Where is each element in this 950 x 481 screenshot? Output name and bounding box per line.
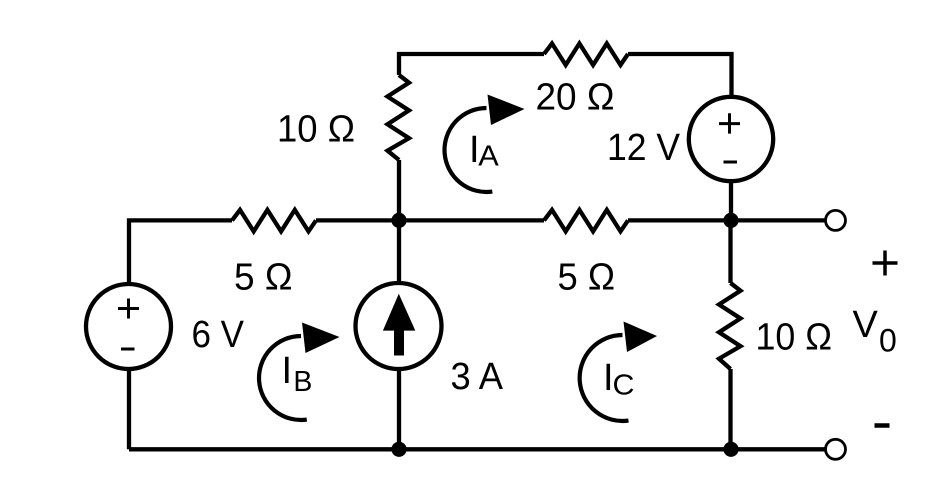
svg-text:5 Ω: 5 Ω [234,257,293,299]
wire 3A source bottom lead [397,369,401,449]
wire middle rail center segment [316,218,544,222]
12V minus sign [724,161,738,164]
svg-text:C: C [613,370,635,402]
wire 12V source bottom lead [729,181,733,220]
svg-text:0: 0 [879,323,897,359]
wire top rail left segment [399,54,544,75]
resistor R 5ohm left zigzag [232,210,316,232]
node B junction dot [723,213,738,228]
voltage source V 6V circle [86,284,171,369]
wire 10ohm output resistor top lead [728,220,732,283]
6V plus sign [118,299,139,319]
3A source arrow [394,329,404,356]
terminal V0- open circle [826,439,846,459]
svg-text:10 Ω: 10 Ω [756,317,833,359]
svg-text:I: I [282,350,293,392]
wire bottom rail [129,447,826,451]
wire 3A source top lead [397,220,401,283]
svg-text:B: B [293,366,312,398]
wire 10ohm resistor to middle node [397,160,401,220]
svg-text:20 Ω: 20 Ω [536,77,615,119]
node A junction dot [391,213,406,228]
12V plus sign [719,113,740,133]
resistor R 10ohm vertical zigzag [388,75,410,160]
mesh current loop IC arc [580,335,629,421]
wire middle rail to output terminal [628,218,826,222]
svg-text:3 A: 3 A [451,356,504,398]
V0 plus sign [873,251,898,276]
voltage source V 12V circle [689,97,773,181]
svg-text:V: V [853,304,879,346]
resistor R 20ohm zigzag [544,44,628,66]
mesh current loop IB arrowhead [302,323,340,354]
wire 10ohm output resistor bottom lead [728,369,732,449]
mesh current loop IA arrowhead [488,95,525,126]
wire top rail right segment [628,54,732,97]
node bottom-left junction dot [391,442,406,457]
mesh current loop IC arrowhead [624,322,658,353]
svg-text:6 V: 6 V [192,314,245,356]
svg-text:12 V: 12 V [607,127,681,169]
terminal V0+ open circle [826,210,846,230]
svg-text:A: A [478,141,499,173]
svg-text:5 Ω: 5 Ω [558,257,616,299]
mesh current loop IA arc [445,108,493,192]
svg-text:10 Ω: 10 Ω [277,109,355,151]
node bottom-right junction dot [723,442,738,457]
6V minus sign [121,348,135,351]
wire middle rail left end, down to 6V source [129,220,232,284]
resistor R 5ohm right zigzag [544,210,628,232]
wire 6V source to bottom rail [127,369,131,449]
V0 minus sign [875,423,890,428]
current source I 3A circle [356,283,442,369]
resistor R 10ohm output zigzag [719,283,741,369]
mesh current loop IB arc [259,336,307,420]
